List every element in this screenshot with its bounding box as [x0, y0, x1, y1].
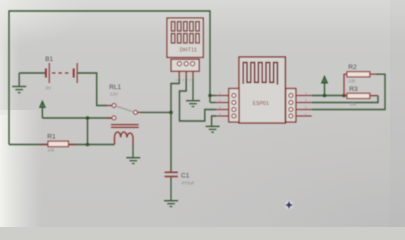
ESP01 antenna meander: [243, 63, 277, 85]
svg-text:9V: 9V: [46, 85, 51, 90]
node junction (87.5,144.5): [86, 143, 90, 147]
ESP01 right header U1B: [286, 89, 296, 123]
svg-text:ESP01: ESP01: [253, 101, 269, 107]
label 10k R3: [350, 102, 358, 107]
relay coil: [115, 132, 134, 146]
label RL1: [109, 84, 121, 91]
node (344,95.5): [342, 94, 346, 98]
svg-text:10k: 10k: [350, 102, 358, 107]
ground relay coil: [126, 145, 140, 164]
wire power arrow net row y=118: [42, 118, 111, 145]
ESP01 right pin lines: [296, 96, 312, 117]
ESP01 module body: [239, 57, 285, 123]
power terminal arrow left: [40, 101, 45, 118]
relay switch arm: [116, 106, 134, 112]
cursor marker halo: [285, 201, 294, 210]
ground battery: [12, 73, 26, 93]
svg-text:470uF: 470uF: [181, 181, 195, 187]
wire battery left: [19, 72, 45, 74]
DHT11 sensor body: [167, 18, 203, 57]
node junction (87.5,118): [86, 116, 90, 120]
ground ESP pin4: [206, 126, 220, 132]
battery B1: [46, 63, 77, 83]
DHT11 pin stubs: [179, 71, 193, 78]
wire battery right to relay common: [77, 73, 107, 106]
svg-text:DHT11: DHT11: [180, 48, 197, 54]
wire ESP right pin2 row to R3 loop: [312, 96, 378, 103]
node (324.5,95.5): [323, 94, 327, 98]
DHT pin numbers: [176, 78, 192, 82]
svg-text:12V: 12V: [110, 91, 119, 96]
resistor R3: [344, 93, 378, 98]
label R2: [348, 64, 357, 71]
ESP01 left pin lines: [216, 96, 229, 117]
relay core bars: [111, 125, 139, 128]
node A junction (171,112.4): [169, 111, 173, 115]
label B1: [45, 56, 53, 63]
wire DHT pin2 to ESP pin3: [180, 78, 217, 121]
label 12V: [110, 91, 119, 96]
ESP01 left header U1A: [229, 89, 239, 123]
label 470uF: [181, 181, 195, 187]
ESP01 right pin numbers: [305, 91, 307, 116]
node at (210,95.5): [208, 94, 211, 97]
svg-text:R1: R1: [47, 134, 56, 141]
svg-text:C1: C1: [181, 173, 190, 180]
wire R1 row: [9, 144, 115, 146]
wire VCC row right of ESP: [312, 95, 344, 97]
ground DHT pin3: [186, 78, 200, 107]
svg-text:R2: R2: [348, 64, 357, 71]
wire relay pole to node A: [141, 111, 171, 113]
label ESP01: [253, 101, 269, 107]
label 10k R1: [48, 148, 56, 153]
capacitor C1: [165, 172, 178, 176]
label DHT11: [180, 48, 197, 54]
label 9V: [46, 85, 51, 90]
DHT11 connector: [171, 59, 199, 71]
ground C1: [164, 177, 178, 207]
wire DHT pin1 to node A and C1: [171, 78, 179, 172]
wire big loop from R1 to top border to ESP pins: [9, 11, 216, 145]
svg-text:B1: B1: [45, 56, 53, 63]
wire ESP left pin4 to ground: [212, 116, 216, 126]
DHT11 grille slots: [171, 22, 199, 43]
wire ESP right pin3 row to R2 loop: [312, 74, 385, 109]
svg-text:10k: 10k: [48, 148, 56, 153]
svg-text:RL1: RL1: [109, 84, 121, 91]
ESP01 left pin numbers: [219, 91, 221, 116]
cursor marker: [285, 201, 293, 209]
label R3: [349, 86, 358, 93]
label C1: [181, 173, 190, 180]
svg-text:R3: R3: [349, 86, 358, 93]
label R1: [47, 134, 56, 141]
resistor R2: [344, 72, 377, 96]
relay contact pins: [106, 106, 142, 119]
relay RL1 switch contacts: [112, 104, 137, 120]
svg-text:10k: 10k: [349, 79, 357, 84]
resistor R1: [40, 141, 76, 146]
power terminal arrow right: [322, 76, 328, 95]
label 10k R2: [349, 79, 357, 84]
